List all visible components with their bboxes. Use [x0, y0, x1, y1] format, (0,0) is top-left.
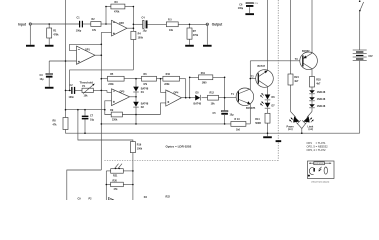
junction node (136,123.9)	[135, 123, 137, 125]
junction node (101.3,123.9)	[101, 123, 103, 125]
ground R7	[185, 45, 194, 47]
svg-text:(View from above): (View from above)	[312, 181, 330, 184]
svg-text:R12: R12	[210, 92, 215, 95]
svg-text:R24: R24	[294, 76, 299, 79]
wire: rail y=109.7	[66, 109, 105, 111]
ground C6	[245, 13, 254, 15]
wire: LDR left column	[105, 171, 107, 200]
svg-text:10k: 10k	[169, 29, 174, 32]
wire: output terminal ground column	[206, 26, 208, 45]
resistor R5 10k	[166, 18, 178, 32]
junction node (85,109.7)	[84, 109, 86, 111]
svg-text:220k: 220k	[164, 83, 170, 86]
svg-text:OP3, 4 = TL072: OP3, 4 = TL072	[307, 148, 327, 152]
svg-text:1k0: 1k0	[236, 128, 241, 131]
svg-text:OP2: OP2	[119, 22, 124, 25]
wire: OP1 long output column down	[100, 44, 102, 170]
diode chain D 1N4148	[309, 90, 326, 94]
op-amp OP4	[166, 90, 182, 106]
junction node (133.4,28.2)	[133, 27, 135, 29]
svg-text:OP1: OP1	[85, 49, 90, 52]
svg-text:Threshold: Threshold	[80, 81, 94, 85]
svg-text:220k: 220k	[108, 83, 114, 86]
wire: T3 collector to R25	[311, 69, 313, 77]
resistor R4 100k	[131, 31, 144, 39]
arrow bar on dashed line	[276, 140, 282, 142]
svg-text:R25: R25	[316, 78, 321, 81]
svg-text:220k: 220k	[112, 119, 118, 122]
diode chain D 1N4148	[309, 97, 326, 101]
junction node (65.5,90.4)	[65, 90, 67, 92]
junction node (189.5,24.3)	[189, 24, 191, 26]
svg-text:470k: 470k	[53, 34, 59, 37]
junction node (101.3,44.3)	[101, 44, 103, 46]
resistor R13 1k0	[231, 118, 246, 131]
wire: OP4 output row y=97.7	[182, 97, 196, 99]
resistor R9 220k	[110, 109, 122, 121]
svg-text:47k: 47k	[143, 83, 148, 86]
resistor R2 47k	[91, 18, 101, 32]
junction node (101.3,78.7)	[101, 78, 103, 80]
capacitor C3 10u	[40, 74, 53, 82]
junction node (132.9,184.5)	[132, 184, 134, 186]
svg-text:OP5: OP5	[120, 90, 125, 93]
svg-text:47k: 47k	[53, 124, 58, 127]
wire: vertical x=312 top to T3	[311, 0, 313, 53]
wire: OP4 - input riser	[161, 79, 166, 93]
svg-text:560R: 560R	[255, 122, 261, 125]
junction node (224.6,123.9)	[224, 123, 226, 125]
resistor R11 1M0	[199, 72, 213, 85]
wire: R8 bottom to rail2	[66, 130, 360, 134]
svg-text:BC547B: BC547B	[246, 107, 255, 110]
wire: C5 column	[224, 98, 226, 111]
capacitor C1 100p	[76, 17, 83, 33]
wire: R3 right to output column	[125, 6, 133, 8]
resistor R1 470k	[47, 28, 59, 38]
LDR R21	[111, 164, 124, 178]
junction node (136,114.5)	[135, 114, 137, 116]
junction node (267.5,133.2)	[267, 132, 269, 134]
junction node (132.9,170.9)	[132, 170, 134, 172]
output terminal	[206, 23, 223, 27]
svg-text:R16: R16	[137, 144, 142, 147]
wire: C7 column	[84, 110, 86, 116]
svg-text:10k: 10k	[211, 103, 216, 106]
diode chain D 1N4148	[309, 104, 326, 108]
svg-text:1N4148: 1N4148	[317, 105, 326, 108]
wire: OP1 feedback top rail y=44.3	[70, 43, 102, 45]
junction node (49.2,24)	[48, 23, 50, 25]
svg-text:10k: 10k	[84, 95, 89, 98]
svg-text:100n: 100n	[69, 96, 75, 99]
junction node (106,24)	[105, 23, 107, 25]
capacitor C2 100n	[69, 84, 76, 99]
wire: OP2 output to column	[127, 27, 133, 29]
transistor T3 BC557	[295, 50, 318, 69]
op-amp OP1	[77, 46, 96, 64]
wire: R7 divider column	[189, 24, 191, 28]
resistor R16 100k	[130, 142, 142, 153]
svg-text:1N4148: 1N4148	[317, 98, 326, 101]
LED Power	[287, 112, 302, 134]
svg-text:100µ: 100µ	[238, 7, 244, 10]
junction node (133.4,6.5)	[133, 6, 135, 8]
potentiometer P1 10k	[80, 81, 95, 98]
wire: OP2 + input loop	[101, 33, 111, 45]
resistor R8 47k	[53, 118, 69, 130]
resistor R25 4k7	[310, 77, 322, 88]
wire: out row to C4 and R5	[133, 23, 142, 25]
op-amp OP5	[112, 89, 130, 106]
resistor R12 10k	[208, 92, 219, 106]
svg-text:R 5: R 5	[168, 18, 172, 21]
junction node (106,6.5)	[105, 6, 107, 8]
transistor T1 BC547B	[231, 88, 255, 110]
wire: threshold row y=91.3	[66, 89, 72, 91]
junction node (160.5,78.7)	[160, 78, 162, 80]
svg-text:100k: 100k	[138, 36, 144, 39]
wire: diode column x=136	[135, 79, 137, 87]
wire: R10 to OP4 output feedback	[185, 79, 187, 98]
svg-text:OP2, 5 = NE5532: OP2, 5 = NE5532	[307, 145, 329, 149]
resistor R3 470k	[111, 1, 125, 14]
resistor R20 47k	[111, 179, 124, 191]
ground R1	[45, 45, 54, 47]
svg-text:10µ: 10µ	[40, 78, 45, 81]
capacitor C4 10u	[142, 17, 148, 33]
resistor R7 470k	[187, 28, 199, 39]
svg-text:R11: R11	[201, 72, 206, 75]
svg-text:R21: R21	[113, 175, 118, 178]
ground output	[203, 45, 212, 47]
wire: R1 column	[48, 24, 50, 28]
note op types	[307, 141, 329, 152]
svg-text:47k: 47k	[92, 29, 97, 32]
svg-text:Optos = LDR 0202: Optos = LDR 0202	[166, 144, 192, 148]
svg-text:BAT48: BAT48	[141, 87, 149, 90]
svg-text:(on): (on)	[288, 128, 293, 131]
wire: T2 emitter to top rail x=267.5	[267, 0, 269, 71]
junction node (69.6,90.4)	[69, 90, 71, 92]
junction node (224.6,97.7)	[224, 97, 226, 99]
svg-text:R20: R20	[113, 179, 118, 182]
capacitor C7 10u	[82, 115, 95, 122]
wire: R25 to diode chain	[311, 87, 313, 90]
junction node (136,78.7)	[135, 78, 137, 80]
junction node (104.8,109.7)	[104, 109, 106, 111]
svg-text:10µ: 10µ	[230, 114, 235, 117]
junction node (133.4,24.3)	[133, 24, 135, 26]
wire: T1 collector column up to T3 base row	[249, 61, 251, 91]
wire: R16 bottom to LDR column	[132, 153, 134, 200]
svg-text:BAT48: BAT48	[141, 103, 149, 106]
svg-text:BAT48: BAT48	[194, 103, 202, 106]
resistor R18 220k	[108, 73, 125, 86]
svg-text:470k: 470k	[193, 34, 199, 37]
svg-text:15V: 15V	[368, 55, 373, 58]
ground R15	[263, 136, 272, 138]
switch S1	[359, 0, 364, 11]
svg-text:R 13: R 13	[235, 118, 241, 121]
wire: OP1 output to node column	[95, 54, 101, 56]
resistor R15 560R	[255, 113, 270, 125]
junction node (250.3,78.5)	[250, 78, 252, 80]
svg-text:OP1 = TL071: OP1 = TL071	[307, 141, 327, 145]
junction node (77.9,109.7)	[77, 109, 79, 111]
wire: R11 bypass loop	[190, 77, 199, 97]
svg-text:OP4: OP4	[174, 91, 179, 94]
svg-text:10µ: 10µ	[90, 119, 95, 122]
junction node (65.5,61)	[65, 60, 67, 62]
svg-text:100p: 100p	[76, 30, 82, 33]
svg-text:100k: 100k	[137, 148, 143, 151]
svg-text:BC547: BC547	[258, 65, 266, 68]
resistor R24 4k7	[288, 74, 299, 85]
wire: rail1 y=123.9	[101, 123, 231, 125]
svg-text:1N4148: 1N4148	[317, 91, 326, 94]
diode D5 BAT48	[194, 92, 202, 106]
junction node (136,96.8)	[135, 96, 137, 98]
wire: vertical x=290.5 from top through R24	[290, 0, 292, 74]
svg-text:47k: 47k	[114, 188, 119, 191]
wire: OP1 + input row y=61	[49, 60, 76, 62]
junction node (189.7,77.3)	[189, 77, 191, 79]
svg-text:R22: R22	[166, 195, 171, 198]
svg-text:Input: Input	[18, 22, 27, 26]
junction node (224.6,77.3)	[224, 77, 226, 79]
bottom edge cut components	[78, 195, 171, 200]
wire: R4-bottom link to threshold box	[70, 70, 134, 91]
input terminal	[18, 22, 31, 26]
wire: T1 emitter column	[249, 102, 251, 124]
opto package box LDR 0202	[308, 161, 335, 184]
diode D6	[260, 93, 275, 100]
svg-text:BC557: BC557	[302, 50, 310, 53]
wire: battery column	[359, 11, 361, 50]
wire: T2 collector column to D6,R15	[267, 86, 269, 94]
svg-text:R10: R10	[166, 73, 171, 76]
wire: rectifier row y=78.7	[101, 78, 107, 80]
diode D2 BAT48	[133, 102, 149, 109]
wire: T2 base tap	[250, 78, 258, 80]
wire: V2 long vertical x=65.5	[65, 0, 67, 118]
wire: R4 column bottom	[132, 40, 134, 70]
transistor T2 BC547	[251, 65, 273, 87]
svg-text:R14: R14	[255, 118, 260, 121]
battery 15V	[353, 50, 373, 61]
wire: OP5 + loop with R9	[105, 101, 112, 115]
junction node (185.7,97.7)	[185, 97, 187, 99]
junction node (101.3,90.4)	[101, 90, 103, 92]
ground C3	[45, 87, 54, 89]
resistor R6 47k	[142, 73, 157, 86]
svg-text:4k7: 4k7	[316, 82, 321, 85]
diode D7	[260, 102, 275, 109]
wire: R3 feedback riser left	[105, 7, 107, 25]
svg-text:4k7: 4k7	[294, 80, 299, 83]
wire: OP5 output to diode column	[130, 96, 136, 98]
junction node (101.3,55.2)	[101, 54, 103, 56]
capacitor C5 10u	[213, 111, 235, 117]
diode D1 BAT48	[133, 87, 149, 94]
svg-text:Output: Output	[212, 23, 223, 27]
svg-text:10µ: 10µ	[143, 29, 148, 32]
wire: input terminal down to ground	[29, 25, 31, 45]
junction node (65.5,109.7)	[65, 109, 67, 111]
junction node (189.7,97.7)	[189, 97, 191, 99]
wire: main input row y=24	[32, 23, 80, 25]
wire: x=77.9 drop from rail to R16 feed	[78, 110, 133, 142]
ground input	[26, 45, 35, 47]
svg-text:LDR 0202: LDR 0202	[315, 163, 325, 165]
svg-text:470k: 470k	[114, 11, 120, 14]
dashed optical coupling line	[277, 0, 279, 161]
capacitor C6 100u	[238, 3, 259, 14]
junction node (85,133.2)	[84, 132, 86, 134]
op-amp OP2	[112, 20, 128, 36]
resistor R10 220k	[163, 73, 180, 86]
LED Limit	[302, 112, 314, 132]
svg-text:1M0: 1M0	[202, 82, 207, 85]
junction node (301.8,133.2)	[301, 132, 303, 134]
svg-text:(on): (on)	[309, 128, 314, 131]
junction node (106.3,184.5)	[106, 184, 108, 186]
